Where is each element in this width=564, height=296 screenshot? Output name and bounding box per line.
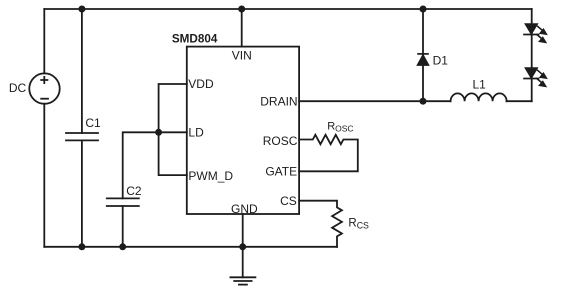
svg-text:GATE: GATE xyxy=(265,164,297,178)
svg-text:CS: CS xyxy=(280,194,297,208)
svg-text:PWM_D: PWM_D xyxy=(188,169,233,183)
svg-text:ROSC: ROSC xyxy=(327,121,353,134)
svg-text:D1: D1 xyxy=(433,54,449,68)
svg-text:VIN: VIN xyxy=(232,49,252,63)
svg-text:VDD: VDD xyxy=(188,77,214,91)
svg-text:LD: LD xyxy=(188,126,204,140)
svg-text:RCS: RCS xyxy=(348,218,369,231)
svg-text:GND: GND xyxy=(231,202,258,216)
svg-text:DC: DC xyxy=(9,81,27,95)
svg-text:DRAIN: DRAIN xyxy=(260,95,297,109)
svg-text:C1: C1 xyxy=(85,116,101,130)
svg-text:C2: C2 xyxy=(126,184,142,198)
svg-text:L1: L1 xyxy=(473,78,487,92)
svg-text:SMD804: SMD804 xyxy=(172,32,218,45)
svg-text:ROSC: ROSC xyxy=(263,134,298,148)
